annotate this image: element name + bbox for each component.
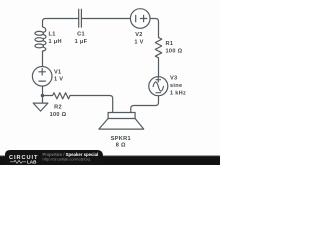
wire top-left corner to C1 [43,19,79,27]
svg-text:LAB: LAB [27,160,37,165]
svg-text:R1: R1 [166,41,174,47]
svg-text:L1: L1 [49,32,56,38]
svg-text:1 V: 1 V [54,77,63,83]
svg-text:1 μF: 1 μF [75,39,88,45]
ground [33,96,48,112]
voltage source V2 [130,9,150,29]
svg-text:R2: R2 [54,105,62,111]
svg-text:1 μH: 1 μH [49,39,62,45]
junction node [41,94,45,98]
resistor R1 [155,38,161,58]
resistor R2 [43,93,71,99]
inductor L1 [43,27,46,33]
speaker SPKR1 [108,113,135,119]
wire R2 to speaker left terminal [70,96,113,113]
svg-text:V1: V1 [54,69,61,75]
wire L1 to V1 [42,51,44,66]
svg-text:8 Ω: 8 Ω [116,143,126,149]
wire V1 to node [42,86,44,95]
footer bar [0,156,220,165]
wire C1 to V2 [81,18,130,20]
svg-text:http://circuitlab.com/c/jbt3q: http://circuitlab.com/c/jbt3q [43,157,90,162]
svg-text:1 V: 1 V [134,40,143,46]
svg-text:1 kHz: 1 kHz [170,91,186,97]
wire V2 to right corner [150,19,159,38]
footer tab plate [5,150,103,165]
voltage source V1 [32,67,52,87]
svg-text:SPKR1: SPKR1 [111,136,131,142]
svg-text:V2: V2 [135,32,142,38]
svg-text:100 Ω: 100 Ω [166,48,183,54]
labels [49,32,187,149]
footer text [43,152,99,162]
voltage source V3 [149,77,168,96]
svg-text:100 Ω: 100 Ω [50,112,67,118]
CircuitLab logo [9,155,38,165]
wire V3 to speaker right terminal [131,96,159,113]
capacitor C1 [79,9,82,27]
svg-text:C1: C1 [77,32,85,38]
wire R1 to V3 [158,58,160,77]
svg-text:V3: V3 [170,76,177,82]
svg-text:sine: sine [170,83,182,89]
